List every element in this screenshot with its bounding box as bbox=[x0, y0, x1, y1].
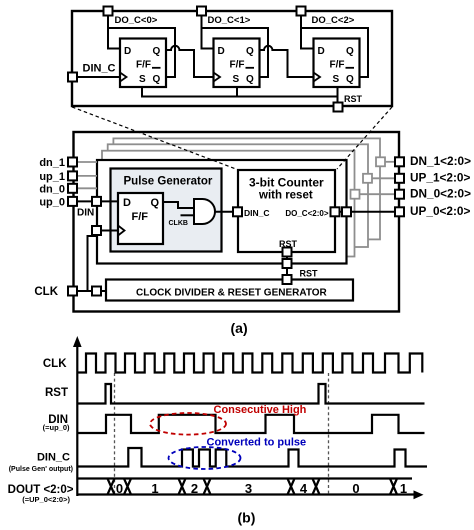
svg-text:DN_1<2:0>: DN_1<2:0> bbox=[410, 154, 471, 168]
wire up_0 input to DIN bbox=[77, 200, 118, 202]
svg-text:(a): (a) bbox=[231, 320, 248, 336]
bus DOUT crossing 5 bbox=[288, 479, 295, 495]
bus DOUT rails bbox=[77, 477, 412, 479]
bus DOUT crossing 6 bbox=[313, 479, 320, 495]
shadow channel box 3 bbox=[108, 144, 368, 247]
svg-text:2: 2 bbox=[191, 481, 198, 496]
dashed guide line 2 bbox=[328, 373, 330, 494]
wire S reset rail bbox=[142, 87, 338, 103]
wire DIN_C input to clock FF0 bbox=[77, 76, 120, 78]
blue ellipse converted to pulse bbox=[169, 447, 241, 469]
dashed zoom line left bbox=[72, 107, 236, 169]
svg-text:CLK: CLK bbox=[43, 358, 67, 370]
label RST row bbox=[45, 387, 68, 399]
wire UP_1 output bbox=[372, 177, 395, 179]
svg-text:1: 1 bbox=[151, 481, 158, 496]
bus value 2 bbox=[191, 481, 198, 496]
port DO_C<1> bbox=[197, 7, 251, 27]
signal RST waveform bbox=[77, 384, 424, 404]
wire CLK riser to pulse gen clock bbox=[88, 234, 97, 291]
svg-text:0: 0 bbox=[116, 481, 123, 496]
y-axis with arrow bbox=[73, 336, 82, 496]
port RST inset bbox=[334, 94, 363, 112]
label DIN_C row bbox=[9, 452, 73, 474]
port dn_1 bbox=[39, 157, 77, 169]
wire feedback Qbar FF0 to D node bbox=[108, 28, 175, 77]
square RST on divider top bbox=[283, 275, 292, 284]
port DN_0 right bbox=[395, 187, 471, 201]
signal CLK waveform bbox=[77, 354, 422, 373]
dashed zoom line right bbox=[337, 107, 392, 169]
label (b) bbox=[238, 509, 256, 525]
svg-text:Q: Q bbox=[346, 46, 354, 57]
square DIN on channel box bbox=[77, 197, 101, 219]
gray square DN_1 bbox=[376, 157, 385, 166]
svg-text:DIN_C: DIN_C bbox=[37, 452, 70, 464]
label DIN row bbox=[43, 414, 70, 432]
svg-text:F/F: F/F bbox=[330, 60, 345, 71]
svg-text:(=UP_0<2:0>): (=UP_0<2:0>) bbox=[22, 495, 70, 504]
port up_0 bbox=[39, 197, 77, 209]
svg-text:DO_C<2:0>: DO_C<2:0> bbox=[285, 209, 328, 218]
bus value 1b bbox=[400, 481, 407, 496]
svg-text:DIN_C: DIN_C bbox=[244, 208, 270, 218]
svg-text:(Pulse Gen' output): (Pulse Gen' output) bbox=[9, 466, 73, 473]
wire CLK input bbox=[77, 290, 106, 292]
svg-text:DIN: DIN bbox=[77, 208, 94, 219]
signal DIN_C waveform bbox=[77, 448, 427, 467]
port DO_C<0> bbox=[104, 7, 158, 27]
svg-text:D: D bbox=[124, 46, 131, 57]
port DIN_C bbox=[68, 63, 116, 82]
svg-text:Pulse Generator: Pulse Generator bbox=[124, 176, 213, 188]
svg-text:CLOCK DIVIDER & RESET GENERATO: CLOCK DIVIDER & RESET GENERATOR bbox=[136, 288, 328, 299]
svg-text:Q: Q bbox=[153, 74, 161, 85]
svg-text:Q: Q bbox=[346, 74, 354, 85]
svg-text:Q: Q bbox=[151, 197, 160, 209]
svg-text:3: 3 bbox=[245, 481, 252, 496]
clock divider box bbox=[106, 280, 353, 301]
svg-text:Q: Q bbox=[246, 74, 254, 85]
port UP_0 right bbox=[395, 204, 470, 218]
square RST on channel box bottom bbox=[283, 259, 319, 279]
gray square UP_1 bbox=[363, 174, 372, 183]
svg-text:S: S bbox=[233, 74, 240, 85]
square UP_0 on channel box bbox=[342, 207, 351, 216]
svg-text:with reset: with reset bbox=[258, 190, 313, 202]
label CLK row bbox=[43, 358, 67, 370]
svg-text:RST: RST bbox=[279, 239, 298, 249]
svg-text:up_0: up_0 bbox=[39, 197, 65, 209]
wire Q FF1 to clock FF2 (with hop) bbox=[260, 46, 314, 77]
bus value 3 bbox=[245, 481, 252, 496]
port DN_1 right bbox=[395, 154, 471, 168]
svg-text:F/F: F/F bbox=[136, 60, 151, 71]
label CLKB bbox=[169, 220, 188, 227]
wire DO_C<0> to D of FF0 bbox=[108, 16, 120, 49]
svg-text:RST: RST bbox=[300, 269, 319, 279]
svg-text:(b): (b) bbox=[238, 509, 256, 525]
svg-text:0: 0 bbox=[352, 481, 359, 496]
signal DIN waveform bbox=[77, 415, 424, 433]
wire Q FF0 to clock FF1 (with hop) bbox=[166, 46, 214, 77]
square DIN_C on counter bbox=[233, 207, 242, 216]
svg-text:DO_C<2>: DO_C<2> bbox=[312, 15, 355, 26]
dashed guide line 1 bbox=[114, 373, 116, 494]
counter inset outer box bbox=[72, 11, 392, 106]
square RST on counter bottom bbox=[279, 239, 298, 257]
wire RST counter to divider bbox=[286, 252, 288, 280]
bus value 4 bbox=[300, 481, 308, 496]
svg-text:1: 1 bbox=[400, 481, 407, 496]
svg-text:D: D bbox=[218, 46, 225, 57]
svg-text:4: 4 bbox=[300, 481, 308, 496]
front channel box bbox=[97, 160, 347, 264]
svg-text:Q: Q bbox=[153, 46, 161, 57]
AND gate U1 bbox=[194, 199, 215, 224]
bus DOUT crossing 4 bbox=[204, 479, 211, 495]
svg-text:(=up_0): (=up_0) bbox=[43, 423, 70, 432]
wire feedback Qbar FF1 to D node bbox=[202, 28, 269, 77]
bus DOUT crossing 1 bbox=[108, 479, 115, 495]
bus DOUT crossing 3 bbox=[179, 479, 186, 495]
svg-text:UP_0<2:0>: UP_0<2:0> bbox=[410, 204, 470, 218]
label (a) bbox=[231, 320, 248, 336]
bus DOUT crossing 2 bbox=[124, 479, 131, 495]
bus DOUT crossing 7 bbox=[390, 479, 397, 495]
svg-text:RST: RST bbox=[45, 387, 68, 399]
bus value 1 bbox=[151, 481, 158, 496]
port DO_C<2> bbox=[297, 7, 355, 27]
svg-text:S: S bbox=[333, 74, 340, 85]
svg-text:DN_0<2:0>: DN_0<2:0> bbox=[410, 187, 471, 201]
svg-text:Q: Q bbox=[246, 46, 254, 57]
shadow channel box 4 bbox=[113, 138, 380, 239]
3-bit counter box bbox=[238, 170, 335, 252]
wire dn_0 input bbox=[77, 187, 97, 189]
svg-text:S: S bbox=[139, 74, 146, 85]
svg-text:DIN_C: DIN_C bbox=[83, 63, 116, 75]
svg-text:F/F: F/F bbox=[132, 211, 149, 223]
port CLK left bbox=[34, 286, 77, 298]
wire dn_1 input bbox=[77, 161, 97, 163]
wire clock square to FF clock bbox=[101, 230, 118, 232]
wire DN_0 output bbox=[360, 193, 396, 195]
label DOUT row bbox=[8, 484, 74, 504]
svg-text:up_1: up_1 bbox=[39, 171, 65, 183]
red ellipse consecutive high bbox=[150, 413, 226, 435]
svg-text:3-bit Counter: 3-bit Counter bbox=[249, 176, 324, 190]
wire feedback Qbar FF2 to D node bbox=[301, 28, 368, 77]
pulse generator box bbox=[111, 169, 222, 252]
svg-text:dn_0: dn_0 bbox=[39, 183, 65, 195]
svg-text:Converted to pulse: Converted to pulse bbox=[207, 437, 307, 449]
svg-text:DO_C<1>: DO_C<1> bbox=[208, 15, 251, 26]
wire DO_C<2> to D of FF2 bbox=[301, 16, 314, 49]
port up_1 bbox=[39, 171, 77, 183]
square pulse-gen clock on channel box bbox=[92, 226, 101, 235]
flip-flop FF2 bbox=[314, 39, 360, 88]
wire Q to AND gate bbox=[163, 202, 194, 208]
wire DO_C<2:0> to UP_0 port bbox=[339, 211, 395, 213]
flip-flop FF0 bbox=[120, 39, 166, 88]
svg-text:F/F: F/F bbox=[230, 60, 245, 71]
square CLK on divider box bbox=[92, 287, 101, 296]
svg-text:RST: RST bbox=[344, 94, 363, 104]
port dn_0 bbox=[39, 183, 77, 195]
svg-text:DO_C<0>: DO_C<0> bbox=[115, 15, 158, 26]
svg-text:Consecutive High: Consecutive High bbox=[214, 404, 307, 416]
shadow channel box 2 bbox=[102, 151, 355, 257]
svg-text:D: D bbox=[318, 46, 325, 57]
svg-text:dn_1: dn_1 bbox=[39, 157, 65, 169]
gray square DN_0 bbox=[351, 190, 360, 199]
main outer box bbox=[74, 132, 400, 312]
wire AND output to DIN_C bbox=[215, 211, 233, 213]
svg-text:CLKB: CLKB bbox=[169, 220, 188, 227]
svg-text:UP_1<2:0>: UP_1<2:0> bbox=[410, 171, 470, 185]
bus value 0 bbox=[116, 481, 123, 496]
blue label Converted to pulse bbox=[207, 437, 307, 449]
svg-text:CLK: CLK bbox=[34, 286, 58, 298]
wire DO_C<1> to D of FF1 bbox=[202, 16, 214, 49]
wire CLKB stub bbox=[181, 214, 195, 216]
wire DN_1 output bbox=[385, 161, 395, 163]
red label Consecutive High bbox=[214, 404, 307, 416]
wire up_1 input bbox=[77, 175, 97, 177]
svg-text:D: D bbox=[123, 197, 131, 209]
square DO_C<2:0> on counter bbox=[331, 207, 340, 216]
x-axis with arrow bbox=[77, 490, 423, 499]
flip-flop FF1 bbox=[214, 39, 260, 88]
port UP_1 right bbox=[395, 171, 470, 185]
pulse generator flip-flop bbox=[118, 193, 163, 244]
bus value 0b bbox=[352, 481, 359, 496]
